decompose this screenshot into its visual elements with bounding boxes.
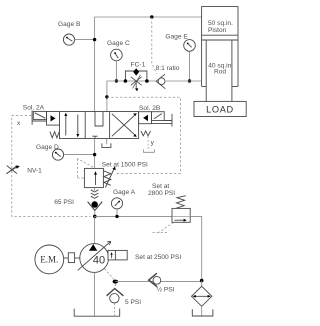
node: Gage D tee (93, 153, 96, 156)
svg-text:NV-1: NV-1 (27, 168, 42, 175)
gauge Gage D (52, 149, 63, 160)
wire: Gage E stem (189, 51, 191, 81)
wire: relief 2800 out to tank column (190, 216, 202, 280)
gauge Gage A (111, 198, 122, 209)
svg-text:Set at 1500 PSI: Set at 1500 PSI (102, 161, 148, 168)
pilot line (dashed) from top line to 8:1 valve (152, 17, 157, 74)
svg-text:5 PSI: 5 PSI (125, 299, 141, 306)
node: main junction below check valve (93, 215, 97, 219)
wire: filter to tank (201, 306, 203, 316)
check valve 1/2 PSI ball (153, 276, 161, 284)
check valve (diamond) in FC-1 bypass (133, 68, 139, 75)
svg-text:Sol. 2B: Sol. 2B (139, 105, 161, 112)
node: Gage B tee (93, 38, 96, 41)
wire: pump pressure line to cylinder piston end (top run) (95, 17, 202, 112)
node: vent tee on B-port line (105, 95, 108, 98)
check valve 65 PSI ball (92, 201, 98, 207)
tank under filter (192, 309, 213, 316)
tank at valve T-port (102, 143, 111, 147)
pilot line x (dashed) from Sol 2A to main line (12, 116, 91, 217)
valve FC-1 needle symbol (131, 77, 142, 85)
gauge Gage C (111, 49, 123, 61)
solenoid Sol 2B box (152, 112, 165, 121)
spring (right end of valve) (141, 131, 151, 136)
reservoir tank (main) (74, 309, 120, 317)
wire: valve P-port down to relief valve (94, 139, 96, 169)
wire: relief 1500 to check valve (94, 188, 96, 217)
svg-text:Piston: Piston (208, 27, 227, 34)
node: Gage E tee (188, 79, 191, 82)
svg-text:LOAD: LOAD (206, 104, 234, 114)
svg-text:FC-1: FC-1 (131, 62, 146, 69)
svg-text:2800 PSI: 2800 PSI (148, 190, 175, 197)
wire: pump suction to tank (93, 272, 95, 316)
gauge Gage B (63, 34, 74, 45)
svg-text:Gage C: Gage C (107, 40, 130, 47)
solenoid Sol 2A bracket (32, 111, 46, 125)
solenoid Sol 2B bracket (152, 114, 173, 127)
wire: Gage B to main line (75, 39, 95, 41)
cylinder barrel (202, 7, 238, 87)
wire: T-port to tank (106, 139, 108, 145)
svg-text:x: x (17, 120, 21, 127)
filter / strainer (192, 286, 212, 306)
left position: parallel arrows (66, 114, 78, 135)
drain line y (dashed) (147, 137, 149, 149)
pump (variable displacement, 40) (80, 244, 109, 273)
relief valve (set 2800 PSI) spring (176, 196, 186, 209)
wire: Gage D to main line (64, 154, 95, 156)
cylinder piston (202, 35, 238, 40)
pilot operated check valve 8:1 (156, 74, 165, 89)
wire: Gage A stem (116, 209, 118, 216)
wire: junction to relief 2800 (95, 215, 172, 217)
valve FC-1 bypass check line (125, 71, 146, 81)
vent line (dashed) from B-port tee to relief vent (107, 97, 180, 173)
svg-text:E.M.: E.M. (40, 254, 58, 264)
svg-text:Set at 2500 PSI: Set at 2500 PSI (135, 254, 181, 261)
svg-text:½ PSI: ½ PSI (157, 285, 175, 293)
wire: rod end line from valve B-port corner (107, 81, 157, 112)
drain (dashed) from 5 PSI check to tank (113, 303, 115, 315)
svg-text:Gage A: Gage A (113, 189, 136, 196)
relief valve 1500 spring (104, 171, 111, 186)
wire: drain line to filter (115, 281, 201, 283)
check valve 1/2 PSI seat (149, 273, 158, 287)
solenoid Sol 2A box (33, 111, 46, 119)
pump case drain (dashed) (105, 269, 115, 281)
node: case drain junction (oval) (113, 280, 119, 284)
check valve 5 PSI (pump drain) (114, 284, 116, 287)
node: FC-1 right junction (145, 79, 149, 83)
pilot stage box (left) with arrow (47, 112, 60, 126)
node: Gage C tee (115, 79, 118, 82)
needle valve NV-1 (7, 166, 17, 174)
node: FC-1 left junction (124, 79, 128, 83)
wire: Gage C stem (115, 61, 117, 81)
node: filter junction (200, 279, 204, 283)
svg-text:Gage B: Gage B (58, 21, 81, 28)
svg-text:y: y (151, 140, 155, 147)
directional valve body (3 position) (60, 112, 139, 139)
center position: ports path (95, 112, 103, 127)
electric motor E.M. (35, 245, 64, 274)
spring (left end of valve) (50, 132, 59, 138)
svg-text:40: 40 (93, 255, 105, 267)
svg-text:Rod: Rod (214, 69, 226, 76)
svg-text:8:1 ratio: 8:1 ratio (156, 65, 180, 72)
pump variable arrow (78, 242, 111, 271)
svg-text:Sol. 2A: Sol. 2A (23, 105, 45, 112)
cylinder rod (206, 40, 232, 101)
wire: junction to filter (201, 281, 203, 287)
svg-text:Gage E: Gage E (165, 33, 188, 40)
svg-text:65 PSI: 65 PSI (54, 199, 74, 206)
relief valve 1500 adjust arrow (105, 169, 114, 188)
vent pilot (dashed) around relief 1500 (77, 159, 93, 178)
relief 2800 drain (dashed) (153, 223, 174, 233)
tank (dashed) for y drain (144, 149, 155, 152)
gauge Gage E (184, 40, 196, 52)
pilot stage box (right) with arrow (139, 112, 152, 124)
check valve 65 PSI spring (91, 190, 99, 199)
relief valve (set 2800 PSI) body (172, 208, 190, 222)
check valve 65 PSI seat (88, 202, 103, 211)
pump compensator box (108, 250, 127, 260)
wire: main junction down to pump (94, 216, 96, 243)
node: pilot tap junction on top line (150, 15, 153, 18)
relief valve (set 1500 PSI) body (84, 168, 103, 187)
pump outlet triangle (89, 244, 97, 251)
node: Gage A tee (115, 215, 118, 218)
LOAD box (194, 101, 246, 116)
right position: crossed arrows (112, 114, 136, 137)
shaft coupling (64, 257, 69, 259)
wire: rod end line into cylinder (166, 80, 202, 82)
